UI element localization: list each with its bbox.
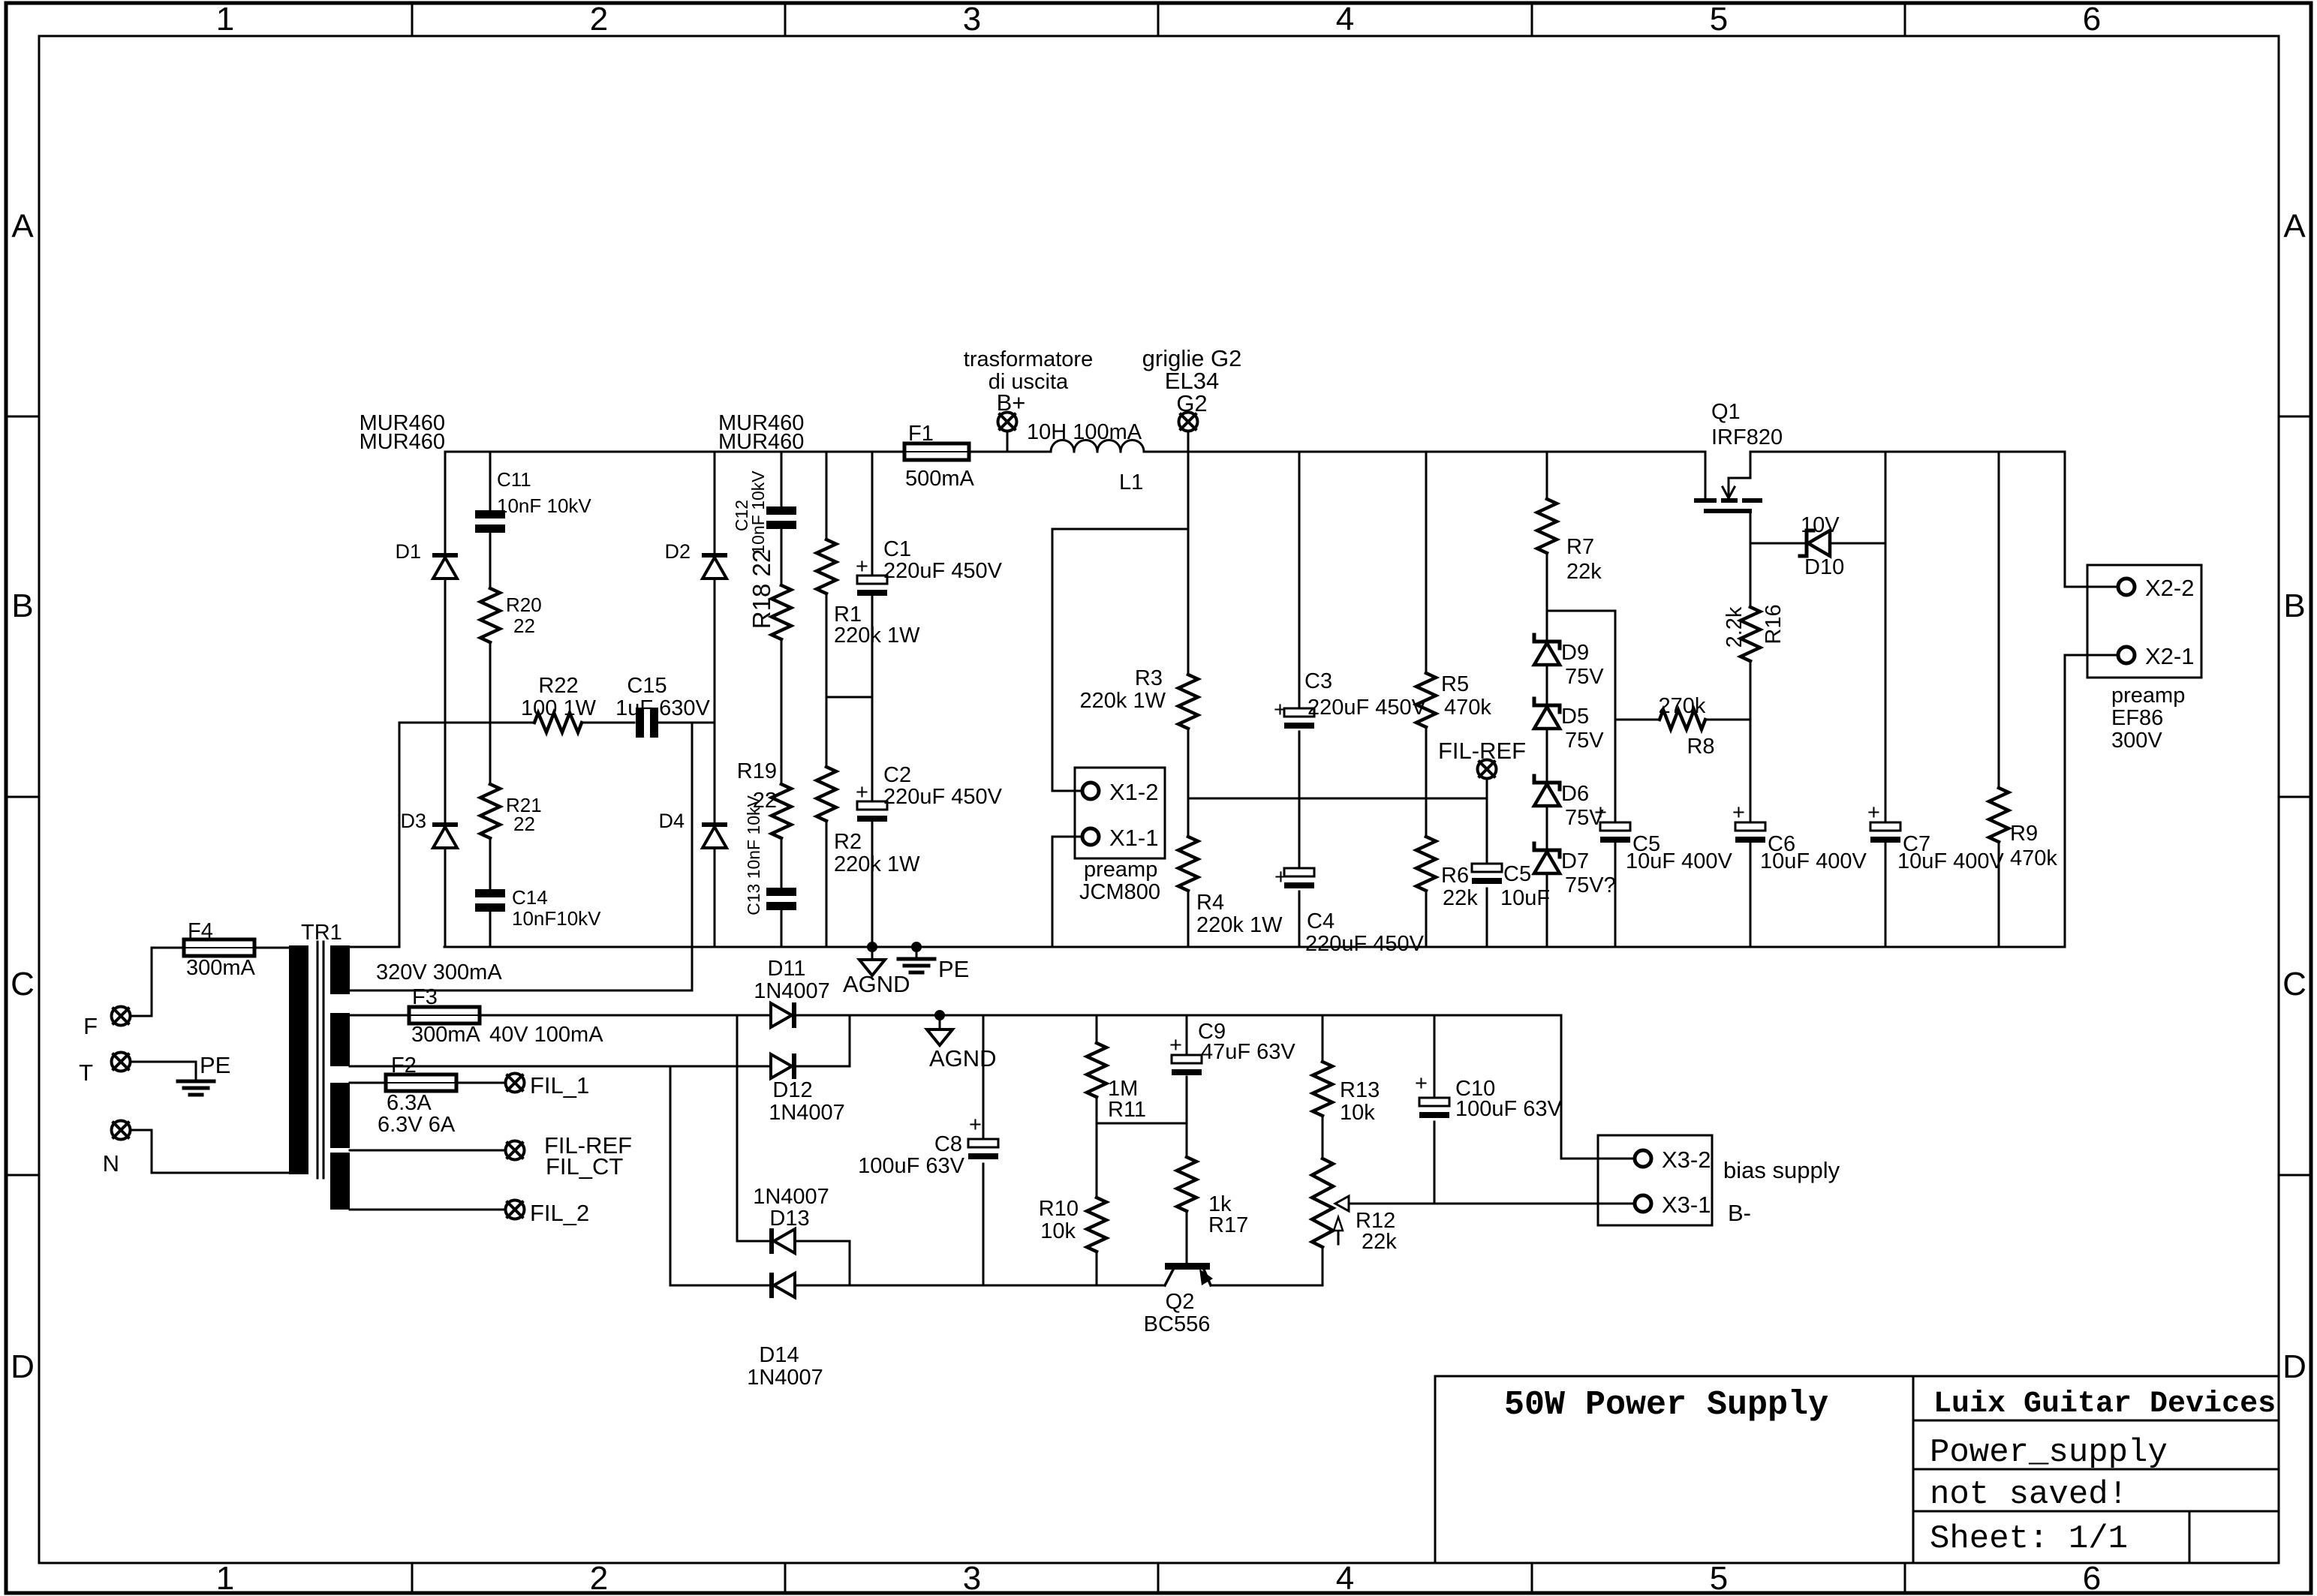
resistor R21 (480, 784, 500, 838)
connector X2 box (2087, 565, 2201, 678)
svg-text:F1: F1 (908, 422, 934, 446)
svg-text:220k 1W: 220k 1W (834, 624, 920, 648)
wire FIL_1 (350, 1082, 504, 1084)
wire R1 C1 junction (826, 696, 872, 699)
svg-text:R5: R5 (1441, 672, 1469, 696)
svg-text:F: F (83, 1013, 98, 1039)
resistor R22 (534, 713, 582, 732)
junction AGND dot (867, 942, 877, 952)
connector X1 box (1075, 768, 1165, 858)
fuse F1 (900, 451, 973, 453)
svg-text:Q1: Q1 (1711, 400, 1741, 424)
svg-text:320V 300mA: 320V 300mA (376, 960, 502, 984)
svg-text:1N4007: 1N4007 (754, 979, 830, 1003)
svg-text:PE: PE (938, 956, 969, 982)
fuse F2 (381, 1082, 461, 1084)
svg-text:50W Power Supply: 50W Power Supply (1504, 1386, 1828, 1424)
ground PE (898, 957, 934, 961)
svg-text:75V: 75V (1565, 665, 1604, 689)
title block box (1435, 1376, 2279, 1563)
capacitor C3 (1284, 708, 1314, 717)
diode D2 (702, 553, 727, 558)
svg-text:R2: R2 (834, 830, 862, 854)
wire B+ bus (445, 452, 2119, 587)
connector pin X2-1 (2118, 647, 2135, 663)
resistor R20 (480, 588, 500, 642)
capacitor C4 (1284, 868, 1314, 876)
resistor R16 (1741, 607, 1760, 661)
wire R1 R2 chain (826, 452, 828, 947)
svg-text:22k: 22k (1443, 886, 1478, 910)
svg-text:+: + (1274, 698, 1286, 722)
svg-text:F4: F4 (188, 919, 213, 943)
wire 40V top F3 (350, 1014, 409, 1017)
svg-text:6.3V 6A: 6.3V 6A (378, 1113, 456, 1137)
svg-text:MUR460: MUR460 (718, 430, 804, 454)
svg-text:270k: 270k (1659, 694, 1706, 718)
svg-text:22k: 22k (1362, 1230, 1397, 1254)
capacitor C6 (1735, 822, 1765, 831)
svg-text:X3-1: X3-1 (1662, 1192, 1711, 1218)
svg-text:+: + (856, 555, 868, 579)
wire mid junction row (1188, 798, 1487, 800)
svg-text:3: 3 (963, 1560, 981, 1596)
svg-text:+: + (969, 1113, 982, 1137)
svg-text:A: A (11, 208, 34, 245)
wire snubber row (399, 723, 715, 947)
wire wiper to X3-1 (1349, 1203, 1598, 1205)
svg-text:D12: D12 (772, 1078, 812, 1102)
svg-text:R22: R22 (538, 674, 578, 698)
wire D13 row (737, 1015, 850, 1285)
ground AGND (859, 960, 885, 975)
wire ground rail (444, 946, 2065, 948)
svg-text:6.3A: 6.3A (387, 1091, 432, 1115)
svg-text:+: + (1867, 801, 1880, 825)
wire F4 primary (152, 948, 293, 1016)
svg-text:FIL_CT: FIL_CT (546, 1153, 623, 1180)
wire C10 branch (1434, 1015, 1436, 1204)
wire Q1 gate (1705, 452, 1707, 498)
wire FIL_2 (350, 1209, 504, 1211)
svg-text:10k: 10k (1040, 1219, 1076, 1243)
svg-text:300V: 300V (2111, 729, 2162, 753)
svg-text:EF86: EF86 (2111, 706, 2163, 730)
fuse F3 (405, 1014, 484, 1017)
svg-text:Q2: Q2 (1166, 1290, 1195, 1314)
resistor R5 (1416, 673, 1436, 727)
svg-text:G2: G2 (1176, 390, 1207, 416)
svg-text:R19: R19 (737, 759, 777, 783)
wire bias rail (670, 1066, 1322, 1285)
svg-text:T: T (79, 1059, 93, 1086)
capacitor C2 (857, 801, 887, 810)
svg-text:2: 2 (590, 1, 608, 38)
wire Q1 source (1750, 513, 1752, 947)
diode D14 (769, 1273, 774, 1298)
svg-text:R3: R3 (1135, 666, 1163, 690)
resistor R9 (1989, 788, 2009, 842)
svg-text:not saved!: not saved! (1930, 1476, 2128, 1513)
svg-text:F3: F3 (412, 985, 438, 1009)
diode D13 (769, 1228, 774, 1254)
svg-text:10uF 400V: 10uF 400V (1760, 849, 1867, 873)
capacitor C13 (766, 888, 796, 896)
svg-text:PE: PE (200, 1052, 230, 1078)
wire FIL_CT (350, 1150, 504, 1152)
terminal FIL-REF mid (1478, 760, 1497, 779)
svg-text:1N4007: 1N4007 (747, 1366, 823, 1390)
svg-text:D2: D2 (664, 540, 691, 563)
junction AGND2 dot (934, 1010, 945, 1020)
resistor R4 (1178, 837, 1198, 891)
wire X3 stubs (1598, 1159, 1635, 1204)
svg-text:preamp: preamp (2111, 684, 2185, 708)
capacitor C9 (1172, 1055, 1202, 1063)
capacitor C12 (766, 506, 796, 515)
terminal FIL_1 (506, 1074, 525, 1093)
svg-text:R4: R4 (1196, 891, 1224, 915)
svg-text:X1-1: X1-1 (1109, 825, 1158, 851)
svg-text:R16: R16 (1762, 604, 1786, 644)
svg-text:5: 5 (1710, 1560, 1728, 1596)
resistor R17 (1177, 1157, 1196, 1211)
svg-text:2.2k: 2.2k (1723, 606, 1747, 648)
capacitor C15 (636, 708, 644, 738)
wire C9 R17 chain (1186, 1015, 1188, 1263)
svg-text:220uF 450V: 220uF 450V (1307, 696, 1427, 720)
svg-text:6: 6 (2083, 1560, 2101, 1596)
svg-text:D4: D4 (658, 810, 685, 832)
zener D6 (1534, 776, 1560, 789)
svg-text:1N4007: 1N4007 (769, 1101, 845, 1125)
junction PE dot (911, 942, 922, 952)
svg-text:10nF 10kV: 10nF 10kV (497, 494, 591, 517)
diode D11 (792, 1002, 796, 1028)
capacitor C14 (475, 889, 505, 897)
wire N terminal (131, 1130, 293, 1173)
svg-text:C15: C15 (627, 674, 667, 698)
svg-text:100 1W: 100 1W (521, 696, 597, 720)
wire D2 D4 chain (714, 452, 716, 947)
svg-text:X1-2: X1-2 (1109, 779, 1158, 805)
inductor L1 (1051, 440, 1074, 452)
svg-text:300mA: 300mA (186, 956, 256, 980)
capacitor C5 400V (1600, 822, 1630, 831)
svg-text:10uF: 10uF (1500, 886, 1550, 910)
svg-text:D6: D6 (1561, 782, 1589, 806)
terminal G2 (1179, 413, 1198, 431)
svg-text:+: + (1169, 1033, 1182, 1057)
zener D7 (1534, 843, 1560, 857)
svg-text:300mA: 300mA (411, 1023, 481, 1047)
svg-text:470k: 470k (1444, 696, 1491, 720)
zener D9 (1534, 635, 1560, 648)
svg-text:500mA: 500mA (905, 467, 975, 491)
svg-text:10nF10kV: 10nF10kV (512, 907, 601, 930)
svg-text:6: 6 (2083, 1, 2101, 38)
svg-text:D7: D7 (1561, 849, 1589, 873)
wire D1 D3 chain (444, 452, 447, 947)
svg-text:L1: L1 (1119, 470, 1143, 494)
terminal N (112, 1121, 131, 1140)
svg-text:B-: B- (1728, 1200, 1751, 1226)
svg-text:22k: 22k (1566, 560, 1602, 584)
svg-text:C2: C2 (883, 763, 911, 787)
svg-text:10H 100mA: 10H 100mA (1027, 420, 1142, 444)
wire G2 feed (1052, 452, 1188, 947)
svg-text:470k: 470k (2010, 846, 2057, 870)
svg-text:B: B (11, 588, 33, 624)
wire FIL-REF stem (1486, 780, 1488, 947)
resistor R2 (817, 767, 836, 821)
svg-text:10V: 10V (1801, 513, 1840, 537)
wire PE stem (916, 947, 918, 959)
terminal B+ (998, 413, 1017, 431)
svg-text:10uF 400V: 10uF 400V (1897, 849, 2005, 873)
svg-text:C3: C3 (1304, 669, 1332, 693)
svg-text:D14: D14 (759, 1343, 799, 1367)
svg-text:C13 10nF 10kV: C13 10nF 10kV (744, 795, 763, 915)
svg-text:220uF 450V: 220uF 450V (1305, 932, 1425, 956)
diode D12 (792, 1053, 796, 1079)
wire B+ stem (1007, 432, 1009, 452)
svg-text:AGND: AGND (843, 971, 910, 997)
svg-text:R11: R11 (1108, 1098, 1146, 1122)
resistor R19 (772, 784, 791, 838)
svg-text:IRF820: IRF820 (1711, 425, 1783, 449)
svg-text:1: 1 (216, 1, 234, 38)
transformer TR1 (289, 945, 308, 1174)
svg-text:di uscita: di uscita (988, 370, 1069, 394)
svg-text:Sheet: 1/1: Sheet: 1/1 (1930, 1520, 2128, 1558)
terminal FIL-REF CT (506, 1141, 525, 1160)
svg-text:C: C (11, 966, 35, 1002)
potentiometer R12 (1312, 1159, 1333, 1247)
svg-text:Luix Guitar Devices: Luix Guitar Devices (1933, 1387, 2276, 1421)
svg-text:+: + (1732, 801, 1745, 825)
svg-text:5: 5 (1710, 1, 1728, 38)
wire PE input stem (195, 1062, 197, 1081)
wire X1-1 feed (1052, 837, 1083, 947)
ground AGND2 (927, 1029, 952, 1045)
connector pin X3-1 (1635, 1195, 1651, 1212)
resistor R1 (817, 540, 836, 594)
svg-text:D5: D5 (1561, 705, 1589, 729)
svg-text:FIL_2: FIL_2 (530, 1200, 589, 1226)
svg-text:75V: 75V (1565, 729, 1604, 753)
wire D10 row (1750, 543, 1885, 545)
svg-text:R10: R10 (1039, 1197, 1079, 1221)
wire AGND stem (871, 947, 874, 960)
capacitor C11 (475, 510, 505, 518)
svg-text:+: + (1594, 801, 1607, 825)
svg-text:BC556: BC556 (1144, 1312, 1211, 1336)
svg-text:22: 22 (513, 615, 535, 637)
svg-text:D: D (11, 1348, 35, 1385)
connector pin X2-2 (2118, 579, 2135, 595)
svg-text:D3: D3 (400, 810, 426, 832)
capacitor C1 (857, 576, 887, 584)
wire AGND2 stem (939, 1015, 941, 1029)
svg-text:47uF 63V: 47uF 63V (1201, 1040, 1295, 1064)
svg-text:FIL-REF: FIL-REF (1438, 738, 1526, 764)
svg-text:220uF 450V: 220uF 450V (883, 559, 1003, 583)
svg-text:C11: C11 (497, 468, 531, 491)
svg-text:2: 2 (590, 1560, 608, 1596)
diode D1 (432, 553, 458, 558)
svg-text:10nF 10kV: 10nF 10kV (748, 470, 768, 555)
connector pin X3-2 (1635, 1150, 1651, 1167)
resistor R13 (1313, 1062, 1332, 1116)
terminal T (112, 1053, 131, 1072)
svg-text:22: 22 (513, 813, 535, 835)
svg-text:R20: R20 (506, 594, 542, 616)
svg-text:C5: C5 (1503, 862, 1531, 886)
diode D3 (432, 822, 458, 827)
svg-text:X2-2: X2-2 (2145, 575, 2194, 601)
diode D4 (702, 822, 727, 827)
svg-text:R18 22: R18 22 (748, 549, 775, 629)
svg-text:R8: R8 (1687, 735, 1714, 759)
transistor Q1 (1694, 498, 1717, 503)
svg-text:3: 3 (963, 1, 981, 38)
wire C12 R18 R19 C13 chain (781, 452, 783, 947)
wire C11 R20 R21 C14 chain (489, 452, 492, 947)
wire C1 C2 chain (871, 452, 874, 947)
svg-text:F2: F2 (391, 1053, 417, 1078)
svg-text:+: + (856, 780, 868, 804)
svg-text:trasformatore: trasformatore (964, 347, 1093, 371)
svg-text:C: C (2282, 966, 2306, 1002)
resistor R10 (1087, 1198, 1106, 1252)
svg-text:75V?: 75V? (1565, 873, 1616, 897)
svg-text:D1: D1 (395, 540, 421, 563)
svg-text:R9: R9 (2010, 822, 2038, 846)
svg-text:X3-2: X3-2 (1662, 1147, 1711, 1173)
svg-text:1N4007: 1N4007 (753, 1185, 829, 1209)
fuse F4 (179, 947, 259, 949)
svg-text:N: N (103, 1150, 119, 1177)
wire F terminal (131, 1015, 152, 1017)
resistor R6 (1416, 837, 1436, 891)
svg-text:R17: R17 (1208, 1213, 1248, 1237)
wire T terminal (131, 1061, 196, 1063)
svg-text:4: 4 (1336, 1, 1354, 38)
svg-text:R13: R13 (1340, 1078, 1380, 1102)
wire R11 R10 chain (1096, 1015, 1098, 1285)
svg-text:D: D (2282, 1348, 2306, 1385)
svg-text:A: A (2283, 208, 2306, 245)
svg-text:+: + (1415, 1072, 1428, 1096)
terminal F (112, 1007, 131, 1026)
wire G2 stem (1187, 432, 1190, 452)
zener D10 (1800, 530, 1813, 556)
capacitor C8 (968, 1139, 998, 1147)
zener D5 (1534, 699, 1560, 712)
wire 40V rail (480, 1015, 1598, 1159)
wire X2-1 feed (2065, 655, 2119, 947)
wire AC2 riser (350, 723, 692, 990)
svg-text:10uF 400V: 10uF 400V (1626, 849, 1733, 873)
svg-text:220k 1W: 220k 1W (1080, 689, 1166, 713)
wire R8 row (1615, 719, 1750, 721)
resistor R3 (1178, 675, 1198, 729)
capacitor C10 (1419, 1098, 1449, 1106)
wire R9 branch (1998, 452, 2000, 947)
svg-text:TR1: TR1 (301, 921, 342, 945)
connector pin X1-2 (1082, 783, 1099, 799)
resistor R8 (1660, 710, 1705, 729)
svg-text:D11: D11 (767, 957, 805, 981)
resistor R18 (772, 585, 791, 639)
svg-text:C4: C4 (1307, 909, 1335, 933)
svg-text:preamp: preamp (1084, 858, 1157, 882)
svg-text:D10: D10 (1804, 555, 1844, 579)
wire C7 branch (1885, 452, 1887, 947)
svg-text:C14: C14 (512, 886, 548, 909)
svg-text:JCM800: JCM800 (1079, 880, 1160, 904)
svg-text:R7: R7 (1566, 535, 1594, 559)
svg-text:220uF 450V: 220uF 450V (883, 785, 1003, 809)
svg-text:40V 100mA: 40V 100mA (489, 1023, 603, 1047)
wire 320V top (350, 946, 399, 948)
svg-text:R6: R6 (1441, 864, 1469, 888)
svg-text:MUR460: MUR460 (360, 430, 445, 454)
svg-text:B: B (2283, 588, 2305, 624)
svg-text:1: 1 (216, 1560, 234, 1596)
transistor Q2 (1165, 1263, 1210, 1270)
wire R13 R12 chain (1322, 1015, 1324, 1159)
capacitor C5 10uF (1472, 864, 1502, 872)
wire C8 branch (982, 1015, 985, 1285)
terminal FIL_2 (506, 1201, 525, 1219)
svg-text:FIL_1: FIL_1 (530, 1072, 589, 1099)
resistor R7 (1537, 499, 1557, 553)
svg-text:220k 1W: 220k 1W (834, 852, 920, 876)
svg-text:bias supply: bias supply (1723, 1157, 1840, 1183)
wire base row (1097, 1123, 1187, 1125)
svg-text:4: 4 (1336, 1560, 1354, 1596)
ground PE input (178, 1080, 214, 1084)
svg-text:100uF 63V: 100uF 63V (1455, 1097, 1563, 1121)
svg-text:1uF 630V: 1uF 630V (615, 696, 710, 720)
resistor R11 (1087, 1043, 1106, 1097)
wire C3 C4 chain (1298, 452, 1301, 947)
svg-text:100uF 63V: 100uF 63V (858, 1154, 965, 1178)
svg-text:C8: C8 (934, 1132, 962, 1156)
svg-text:C1: C1 (883, 537, 911, 561)
connector pin X1-1 (1082, 828, 1099, 845)
svg-text:X2-1: X2-1 (2145, 643, 2194, 669)
wire 40V bottom (350, 1015, 850, 1066)
capacitor C7 (1870, 822, 1900, 831)
wire C5 branch (1614, 611, 1617, 947)
wire R7 zener chain (1547, 452, 1615, 947)
svg-text:D9: D9 (1561, 641, 1589, 665)
svg-text:Power_supply: Power_supply (1930, 1434, 2168, 1471)
svg-text:AGND: AGND (929, 1045, 997, 1072)
svg-text:D13: D13 (769, 1207, 809, 1231)
svg-text:+: + (1274, 865, 1287, 889)
svg-text:220k 1W: 220k 1W (1196, 913, 1283, 937)
connector X3 box (1598, 1135, 1712, 1225)
svg-text:10k: 10k (1340, 1101, 1375, 1125)
wire R5 R6 chain (1425, 452, 1428, 947)
